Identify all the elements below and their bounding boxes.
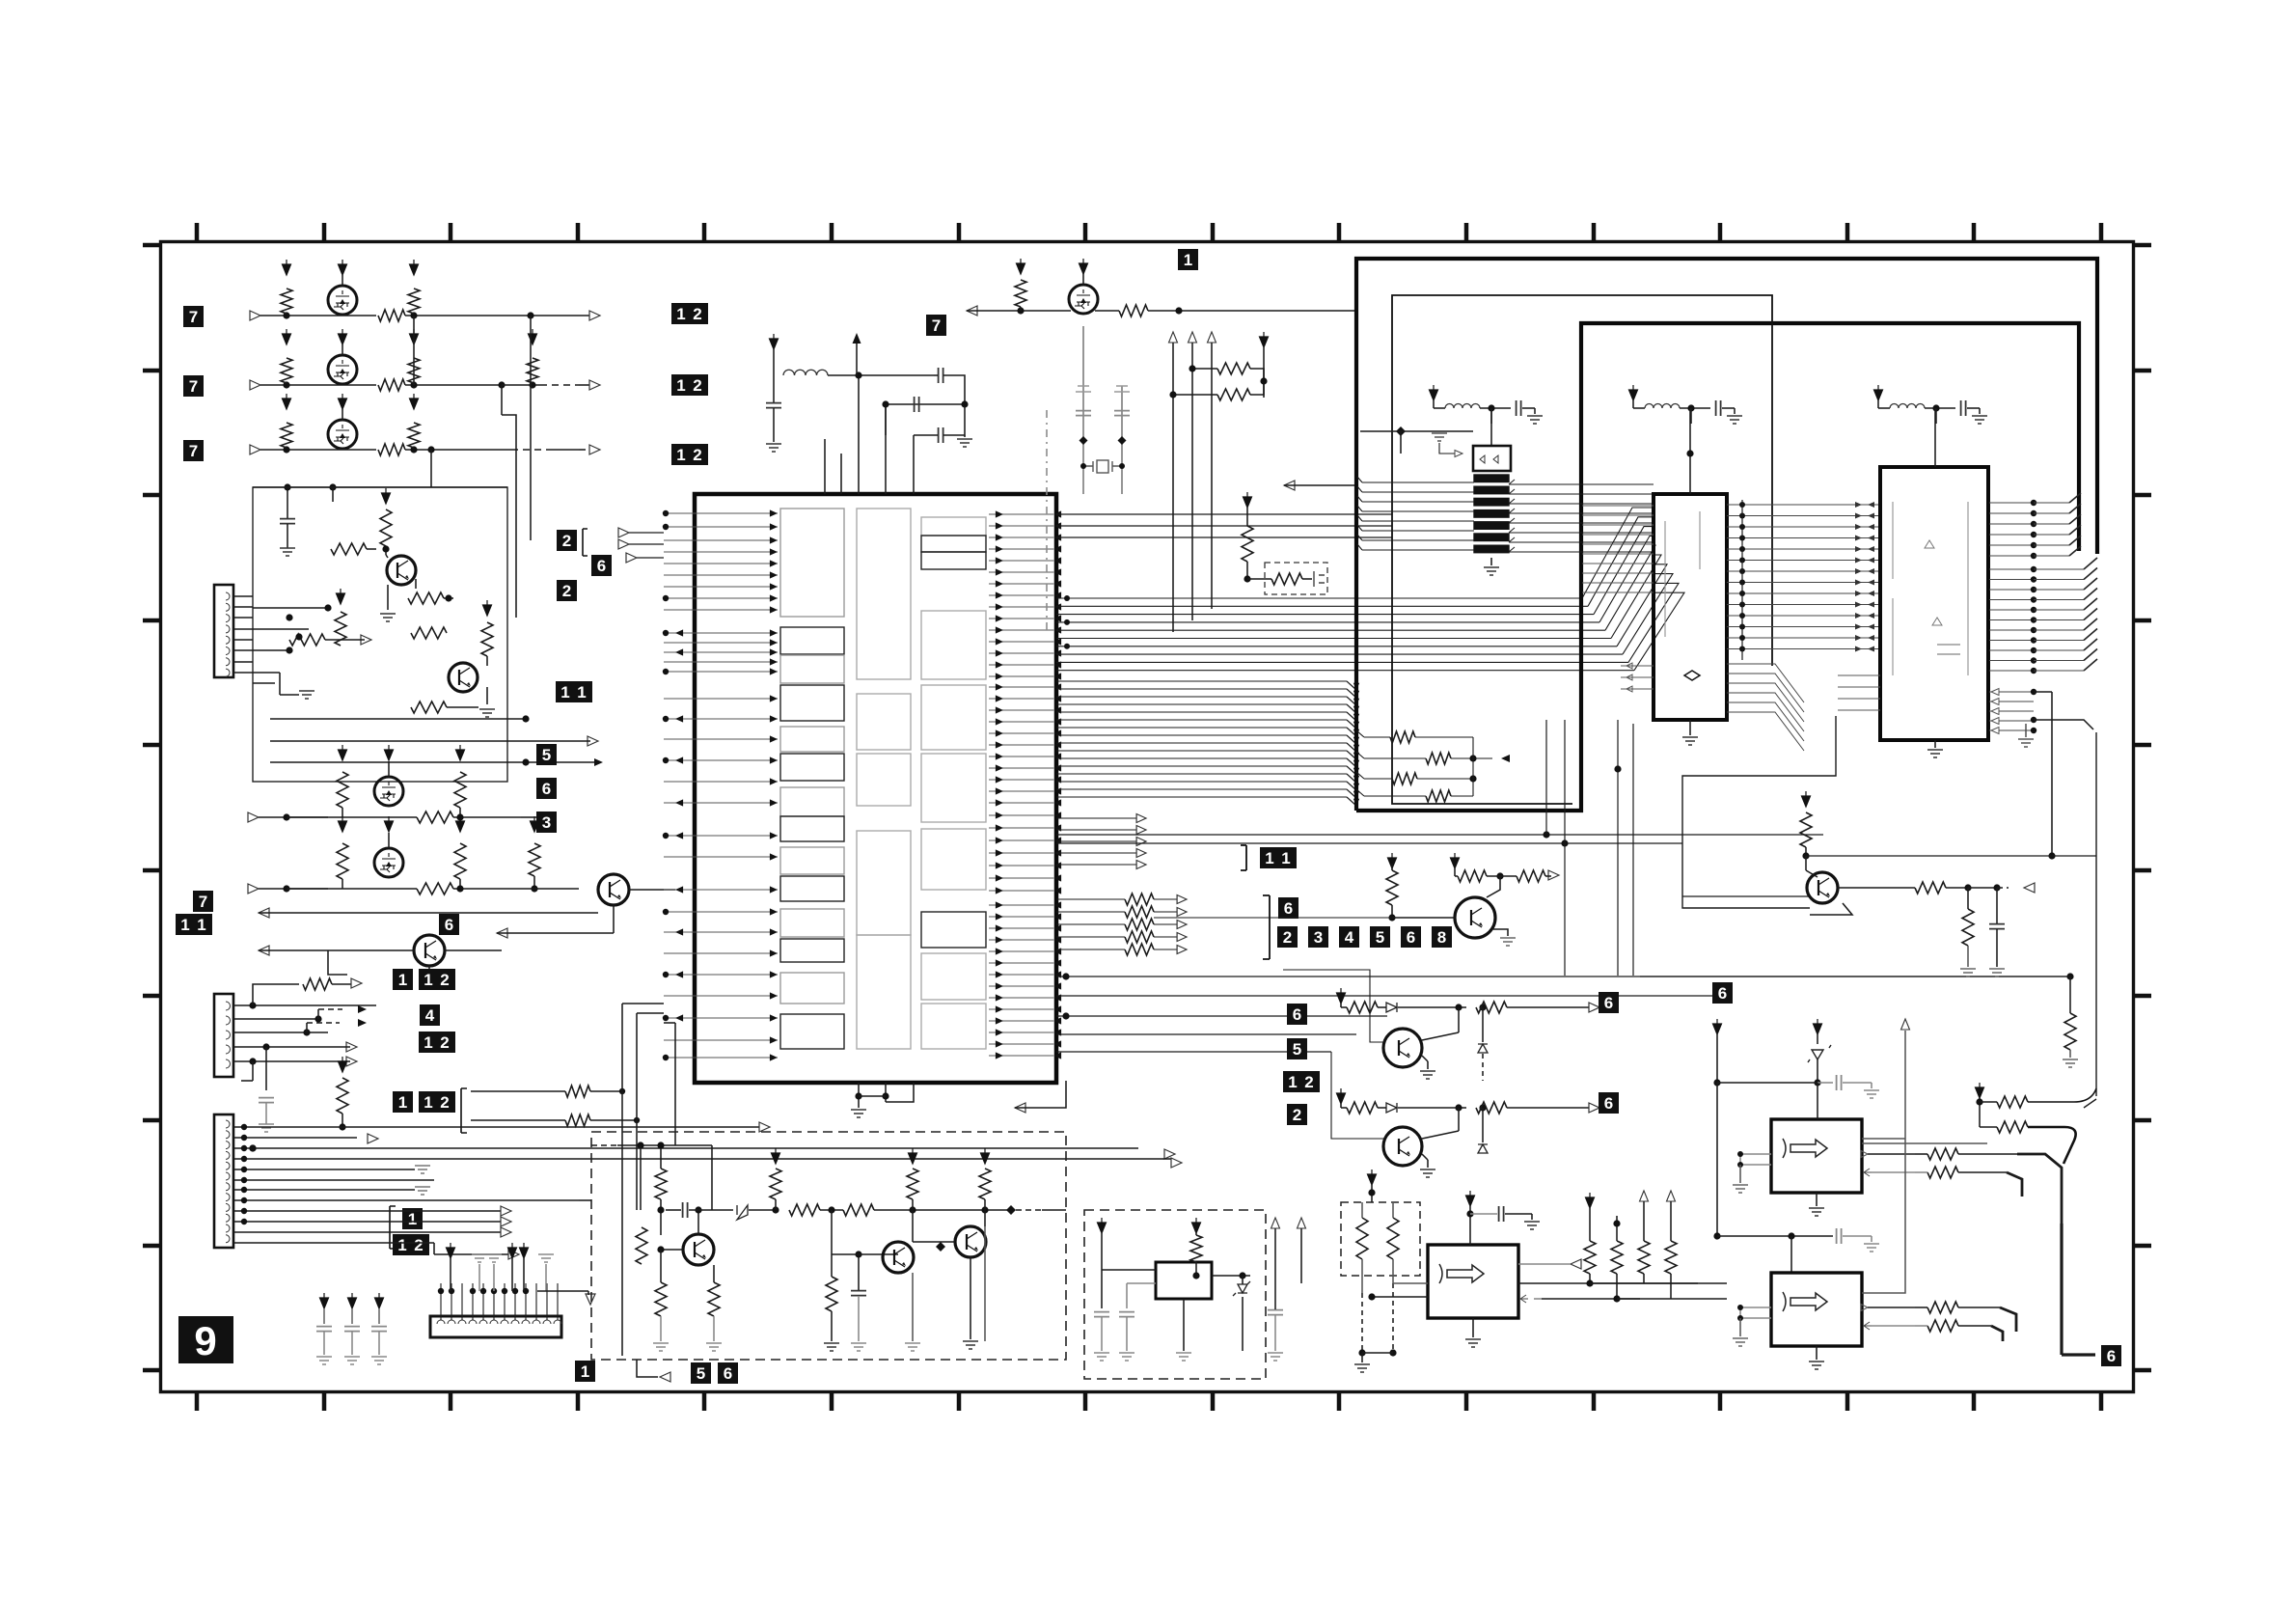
junction J46 bbox=[470, 1288, 476, 1294]
bus wire bbox=[1599, 536, 1654, 622]
bus bend bbox=[1347, 704, 1356, 713]
wire bbox=[1790, 1236, 1792, 1273]
junction J56 bbox=[663, 669, 669, 674]
IC inner line bbox=[1893, 502, 1968, 675]
wire bbox=[1415, 736, 1473, 738]
connector pin bbox=[226, 1016, 231, 1025]
IC pin wire bbox=[989, 641, 1053, 643]
connector CN3 bbox=[214, 1114, 233, 1248]
junction J106 bbox=[2031, 532, 2036, 537]
wire bbox=[1458, 1007, 1460, 1032]
wire bbox=[943, 375, 965, 403]
bus wire bbox=[1727, 504, 1881, 506]
bus loop A bbox=[1356, 259, 2097, 811]
wire bbox=[1739, 1165, 1741, 1183]
junction J70 bbox=[634, 1117, 640, 1123]
junction J162 bbox=[1737, 1315, 1743, 1321]
pin arrow A151 bbox=[1353, 683, 1359, 690]
IC inner block L7 bbox=[780, 787, 844, 816]
bus bend bbox=[2069, 546, 2081, 556]
bus bend bbox=[2084, 619, 2097, 630]
resistor R20 bbox=[454, 843, 466, 879]
wire bbox=[317, 1009, 319, 1019]
pin arrow A134 bbox=[996, 982, 1003, 989]
junction J156 bbox=[1814, 1079, 1820, 1086]
label box 6 bbox=[1599, 1092, 1619, 1114]
svg-text:6: 6 bbox=[445, 916, 453, 934]
IC pin wire bbox=[989, 1008, 1053, 1010]
wire bbox=[858, 1296, 860, 1341]
IC inner line bbox=[1665, 511, 1700, 637]
junction J121 bbox=[2031, 717, 2036, 723]
junction J85 bbox=[1488, 404, 1494, 411]
resistor R38 bbox=[1390, 731, 1415, 743]
wire bbox=[342, 808, 343, 817]
pin arrow A162 bbox=[1353, 768, 1359, 775]
junction J82 bbox=[2066, 973, 2073, 979]
pin arrow A99 bbox=[1053, 776, 1061, 783]
supply arrow V17 bbox=[531, 816, 539, 832]
bus wire bbox=[1056, 781, 1347, 783]
wire bbox=[378, 1308, 380, 1324]
pin arrow A83 bbox=[1053, 683, 1061, 690]
supply arrow bbox=[1451, 853, 1460, 868]
IC pin wire bbox=[989, 583, 1053, 585]
pin arrow A140 bbox=[996, 1017, 1003, 1024]
bus wire bbox=[1056, 696, 1347, 698]
IC inner block R4 bbox=[921, 611, 986, 679]
wire bbox=[1127, 1282, 1156, 1284]
connector wire bbox=[546, 1283, 548, 1320]
wire bbox=[1872, 1171, 1915, 1173]
wire bbox=[342, 879, 343, 889]
wire bbox=[1101, 1233, 1103, 1264]
pin arrow A71 bbox=[1053, 615, 1061, 621]
capacitor bbox=[1837, 1228, 1842, 1244]
label box 1 bbox=[575, 1361, 595, 1382]
junction J143 bbox=[981, 1206, 988, 1213]
ground bbox=[1500, 938, 1516, 946]
pin arrow A37 bbox=[770, 715, 778, 722]
junction J72 bbox=[1175, 307, 1182, 314]
resistor R40 bbox=[1392, 773, 1417, 784]
wire bbox=[914, 434, 938, 436]
connector wire bbox=[461, 1283, 463, 1320]
wire bbox=[1958, 1171, 2007, 1173]
IC inner block R3 bbox=[921, 552, 986, 569]
svg-text:1: 1 bbox=[581, 1362, 589, 1381]
pin arrow A165 bbox=[1353, 791, 1359, 798]
ground bbox=[1809, 1362, 1824, 1369]
junction J75 bbox=[1260, 377, 1267, 384]
IC pin wire bbox=[989, 721, 1053, 723]
bus wire bbox=[1989, 619, 2034, 621]
bus wire bbox=[2034, 579, 2084, 581]
junction J152 bbox=[1613, 1220, 1620, 1226]
wire bbox=[1925, 407, 1955, 409]
arrow A3 bbox=[589, 445, 600, 454]
dashed block bbox=[591, 1132, 1066, 1360]
pin arrow A30 bbox=[770, 606, 778, 613]
supply arrow V10 bbox=[410, 394, 419, 409]
wire bbox=[351, 1332, 353, 1355]
ground bbox=[905, 1343, 920, 1351]
label box 2 bbox=[557, 580, 577, 601]
connector pin bbox=[226, 1235, 230, 1243]
pin arrow A100 bbox=[996, 776, 1003, 783]
ladder bar 3 bbox=[1474, 498, 1509, 506]
bus wire bbox=[1056, 688, 1347, 690]
wire bbox=[405, 449, 424, 451]
pin arrow A93 bbox=[1053, 741, 1061, 748]
dashed block2 bbox=[1084, 1210, 1266, 1379]
junction J116 bbox=[2031, 637, 2036, 643]
wire bbox=[1915, 1153, 1927, 1155]
bus wire bbox=[1509, 503, 1654, 505]
junction J102 bbox=[1739, 646, 1745, 652]
junction J63 bbox=[663, 1055, 669, 1060]
resistor R53 bbox=[1927, 1302, 1958, 1313]
pin arrow A98 bbox=[996, 764, 1003, 771]
junction J74 bbox=[1169, 391, 1176, 398]
junction J131 bbox=[1455, 1004, 1462, 1010]
ground bbox=[280, 548, 295, 556]
junction J73 bbox=[1189, 365, 1195, 371]
wire bbox=[253, 486, 507, 488]
junction J77 bbox=[1119, 463, 1125, 469]
wire bbox=[486, 656, 488, 666]
thick bend wire bbox=[2028, 1127, 2076, 1164]
ground bbox=[1094, 1353, 1109, 1361]
wire bbox=[858, 375, 860, 494]
pin arrow A55 bbox=[1053, 522, 1061, 529]
IC inner block M4 bbox=[857, 831, 911, 935]
IC pin wire bbox=[1621, 665, 1654, 667]
pin arrows bbox=[1855, 546, 1874, 552]
wire bbox=[1958, 1325, 1991, 1327]
IC glyph3 bbox=[1439, 1264, 1484, 1283]
IC pin wire bbox=[664, 512, 778, 514]
wire bbox=[1473, 757, 1492, 759]
resistor bbox=[655, 1169, 667, 1199]
resistor R12 bbox=[408, 592, 444, 604]
wire bbox=[1154, 936, 1179, 938]
connector wire bbox=[514, 1283, 516, 1320]
wire bbox=[1545, 720, 1547, 835]
pin arrow A72 bbox=[996, 615, 1003, 621]
wire bbox=[1400, 431, 1402, 454]
wire bbox=[2051, 692, 2053, 856]
wire bbox=[1378, 1107, 1386, 1109]
wire bbox=[332, 983, 355, 985]
resistor R18 bbox=[417, 811, 453, 823]
label box 1 bbox=[393, 1091, 413, 1113]
supply arrow bbox=[1388, 853, 1397, 868]
wire bbox=[287, 524, 288, 548]
pin arrow A62 bbox=[996, 557, 1003, 564]
arrow bbox=[2024, 883, 2035, 893]
wire bbox=[666, 1209, 681, 1211]
inductor L1 bbox=[783, 370, 828, 375]
svg-text:1: 1 bbox=[676, 376, 685, 395]
ground bbox=[479, 709, 495, 717]
wire bbox=[984, 1226, 986, 1341]
junction J90 bbox=[1739, 513, 1745, 519]
transistor Q1 bbox=[328, 286, 357, 315]
pin arrow A110 bbox=[996, 837, 1003, 843]
bus bend bbox=[1347, 681, 1356, 690]
label box 12 bbox=[393, 1234, 429, 1255]
IC pin wire bbox=[989, 698, 1053, 700]
arrow A148 bbox=[1169, 332, 1178, 343]
ladder bar 5 bbox=[1474, 522, 1509, 530]
pin arrow A116 bbox=[996, 874, 1003, 881]
resistor R36 bbox=[1125, 931, 1154, 943]
bus wire bbox=[1989, 589, 2034, 591]
IC pin wire bbox=[664, 1057, 778, 1059]
arrow A178 bbox=[1589, 1003, 1599, 1012]
bus wire bbox=[1362, 520, 1474, 522]
junction J142 bbox=[909, 1206, 916, 1213]
wire bbox=[233, 1199, 579, 1201]
svg-text:6: 6 bbox=[1604, 1094, 1613, 1113]
junction J28 bbox=[303, 1029, 310, 1035]
arrow A150 bbox=[1208, 332, 1216, 343]
arrow A21 bbox=[508, 1250, 519, 1259]
pin arrow A69 bbox=[1053, 603, 1061, 610]
bus wire bbox=[1727, 592, 1881, 594]
wire bbox=[501, 385, 503, 415]
wire bbox=[1717, 1082, 1818, 1084]
bus wire bbox=[1509, 522, 1654, 524]
resistor R19 bbox=[337, 843, 348, 879]
wire bbox=[1095, 310, 1119, 312]
bus wire bbox=[1056, 796, 1347, 798]
supply arrow bbox=[1098, 1218, 1107, 1233]
junction J88 bbox=[1686, 450, 1693, 456]
pin arrow A29 bbox=[770, 594, 778, 601]
label box 6 bbox=[1401, 926, 1421, 948]
IC pin wire bbox=[989, 525, 1053, 527]
wire bbox=[1505, 1213, 1532, 1215]
pin arrow A41 bbox=[770, 799, 778, 806]
wire bbox=[521, 761, 594, 763]
resistor R48 bbox=[1476, 1102, 1507, 1114]
pin arrow A52 bbox=[770, 1054, 778, 1060]
wire bbox=[1480, 407, 1511, 409]
bus bend bbox=[2069, 514, 2081, 524]
arrow bbox=[660, 1372, 670, 1382]
wire bbox=[831, 1311, 833, 1341]
ground bbox=[1733, 1338, 1748, 1346]
wire bbox=[259, 888, 328, 890]
capacitor C1 bbox=[280, 519, 295, 524]
pin arrow A82 bbox=[996, 673, 1003, 679]
arrow A173 bbox=[1177, 908, 1187, 917]
bus wire bbox=[1357, 544, 1362, 550]
junction J97 bbox=[1739, 591, 1745, 596]
junction J48 bbox=[491, 1288, 497, 1294]
junction J24 bbox=[456, 885, 463, 892]
pin arrow bbox=[675, 1014, 683, 1021]
border tick bbox=[143, 369, 160, 373]
crystal X2 bbox=[1083, 460, 1122, 473]
border tick bbox=[2134, 743, 2151, 748]
wire bbox=[579, 1199, 591, 1201]
wire bbox=[428, 966, 430, 973]
svg-text:2: 2 bbox=[562, 582, 571, 600]
pin arrow A126 bbox=[996, 936, 1003, 943]
svg-text:2: 2 bbox=[693, 305, 701, 323]
ground bbox=[824, 1343, 839, 1351]
pin arrow A135 bbox=[1053, 994, 1061, 1001]
wire bbox=[511, 1258, 513, 1291]
junction J160 bbox=[1788, 1232, 1794, 1239]
junction J93 bbox=[1739, 546, 1745, 552]
arrow A15 bbox=[368, 1134, 378, 1143]
bus wire bbox=[1056, 817, 1138, 819]
label box 5 bbox=[1287, 1038, 1307, 1059]
resistor R25 bbox=[565, 1086, 590, 1097]
IC pin wire bbox=[989, 950, 1053, 952]
border tick bbox=[2134, 493, 2151, 498]
wire bbox=[1392, 917, 1455, 919]
bus wire bbox=[1357, 486, 1362, 492]
bus wire bbox=[1727, 570, 1881, 572]
bus wire bbox=[1989, 649, 2034, 651]
svg-text:1: 1 bbox=[424, 1033, 432, 1052]
wire bbox=[1020, 307, 1022, 311]
wire bbox=[820, 1209, 843, 1211]
transistor Q1 bbox=[387, 556, 416, 585]
pin arrow A24 bbox=[770, 536, 778, 543]
wire bbox=[1589, 1208, 1591, 1241]
wire bbox=[260, 315, 328, 316]
wire bbox=[1427, 1160, 1429, 1168]
wire bbox=[1868, 1153, 1915, 1155]
resistor R8 bbox=[281, 423, 292, 448]
connector pin bbox=[226, 1194, 230, 1201]
bus wire bbox=[1056, 976, 2070, 977]
wire bbox=[1364, 778, 1392, 780]
wire bbox=[351, 1308, 353, 1324]
resistor R55 bbox=[1997, 1096, 2028, 1108]
pin arrow A75 bbox=[1053, 638, 1061, 645]
supply arrow bbox=[1368, 1169, 1377, 1185]
junction J89 bbox=[1739, 502, 1745, 508]
ladder bar 6 bbox=[1474, 534, 1509, 541]
wire bbox=[1154, 949, 1179, 950]
wire bbox=[2034, 720, 2093, 729]
junction J26 bbox=[249, 1002, 256, 1008]
pin arrow A113 bbox=[1053, 862, 1061, 868]
junction J149 bbox=[1389, 1349, 1396, 1356]
wire bbox=[1360, 430, 1473, 432]
junction J20 bbox=[522, 758, 529, 765]
diode bbox=[737, 1205, 748, 1220]
wire bbox=[1434, 407, 1445, 409]
IC pin wire bbox=[1582, 534, 1654, 536]
wire bbox=[934, 374, 938, 376]
bus wire bbox=[2034, 523, 2069, 525]
bus bend bbox=[1347, 697, 1356, 705]
junction J33 bbox=[249, 1144, 256, 1151]
wire bbox=[1980, 1126, 1997, 1128]
pin arrow bbox=[1991, 718, 1999, 725]
border tick bbox=[1083, 223, 1088, 241]
wire bbox=[233, 1126, 342, 1128]
IC pin wire bbox=[664, 856, 778, 858]
label box 12 bbox=[671, 444, 708, 465]
IC pin wire bbox=[989, 594, 1053, 596]
connector wire bbox=[557, 1283, 559, 1320]
pin arrow A123 bbox=[1053, 924, 1061, 931]
pin arrow A77 bbox=[1053, 649, 1061, 656]
pin arrows bbox=[1855, 635, 1874, 641]
wire bbox=[637, 1012, 664, 1014]
wire bbox=[459, 879, 461, 889]
junction J44 bbox=[438, 1288, 444, 1294]
IC glyph4 bbox=[1783, 1139, 1827, 1158]
wire bbox=[1246, 508, 1248, 526]
pin arrows bbox=[1855, 524, 1874, 530]
arrow A147 bbox=[967, 306, 977, 316]
bus wire bbox=[1056, 936, 1125, 938]
connector pin bbox=[226, 1183, 230, 1191]
dashed wire bbox=[1392, 1283, 1394, 1353]
bus wire bbox=[1727, 674, 1804, 712]
pin arrows bbox=[1855, 646, 1874, 652]
resistor R23 bbox=[303, 978, 332, 990]
junction J130 bbox=[1496, 872, 1503, 879]
bus wire bbox=[1056, 864, 1138, 866]
wire bbox=[444, 597, 453, 599]
thick wire bbox=[2000, 1307, 2016, 1332]
junction J41 bbox=[241, 1197, 247, 1203]
wire bbox=[2095, 732, 2097, 1096]
ground bbox=[259, 1124, 274, 1132]
junction J146 bbox=[1192, 1272, 1199, 1279]
wire bbox=[1454, 868, 1456, 876]
border tick bbox=[1337, 1392, 1342, 1411]
cap top bar bbox=[1114, 386, 1130, 392]
pin arrow A65 bbox=[1053, 580, 1061, 587]
bus wire bbox=[1989, 640, 2034, 642]
junction J109 bbox=[2031, 566, 2036, 572]
junction J159 bbox=[1713, 1232, 1720, 1239]
pin arrow A53 bbox=[1053, 510, 1061, 517]
ground bbox=[1420, 1071, 1435, 1079]
pin arrows bbox=[1855, 580, 1874, 586]
wire bbox=[1154, 911, 1179, 913]
pin arrow A35 bbox=[770, 668, 778, 674]
bus wire bbox=[1056, 614, 1594, 616]
wire bbox=[265, 1103, 267, 1124]
wire bbox=[259, 912, 598, 914]
wire bbox=[1472, 737, 1474, 796]
pin arrow A36 bbox=[770, 695, 778, 701]
junction J104 bbox=[2031, 510, 2036, 516]
pin arrows bbox=[1855, 602, 1874, 608]
pin arrow bbox=[1991, 699, 1999, 705]
capacitor bbox=[259, 1098, 274, 1103]
border tick bbox=[2134, 1118, 2151, 1123]
resistor R4 bbox=[281, 358, 292, 383]
junction J118 bbox=[2031, 657, 2036, 663]
capacitor bbox=[1499, 1206, 1504, 1222]
pin arrow bbox=[1991, 689, 1999, 696]
arrow A7 bbox=[497, 928, 507, 938]
